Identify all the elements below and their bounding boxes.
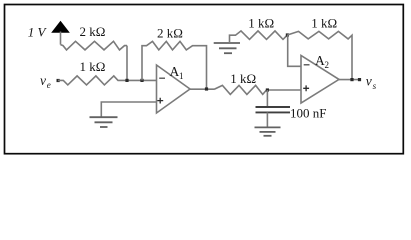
ground G3 (capacitor) (255, 127, 281, 135)
svg-text:1 kΩ: 1 kΩ (311, 15, 337, 30)
svg-text:A: A (170, 64, 180, 79)
wire A2 output (339, 79, 360, 81)
resistor R3 2 kOhm (feedback A1) (142, 41, 207, 89)
svg-text:1 kΩ: 1 kΩ (248, 15, 274, 30)
resistor R6 1 kOhm (top right, feedback A2) (287, 31, 352, 79)
wire A1 output (190, 88, 214, 90)
svg-text:v: v (366, 74, 372, 89)
resistor R1 2 kOhm (source) (61, 41, 128, 50)
label A1 (170, 64, 184, 81)
svg-text:2 kΩ: 2 kΩ (157, 26, 183, 41)
voltage source arrow (1 V) (52, 22, 69, 45)
wire A1 non-inverting input to ground (101, 102, 156, 117)
label 100 nF (290, 106, 326, 121)
junction J6 (A2 output / feedback) (350, 78, 353, 81)
label 2 kOhm R1 (80, 24, 106, 39)
op-amp A2 (301, 56, 339, 104)
node N1 junction dots (125, 79, 143, 82)
svg-text:1 V: 1 V (28, 24, 48, 39)
label 1 V (28, 24, 48, 39)
border frame (5, 5, 404, 154)
svg-text:e: e (47, 80, 51, 90)
svg-text:1: 1 (179, 71, 184, 81)
svg-text:1 kΩ: 1 kΩ (80, 59, 106, 74)
junction J4 (capacitor node) (266, 88, 269, 91)
svg-text:1 kΩ: 1 kΩ (230, 71, 256, 86)
resistor R4 1 kOhm (A1 out to A2 +) (214, 85, 301, 94)
label ve (40, 73, 51, 90)
resistor R2 1 kOhm (input) (58, 76, 157, 85)
svg-text:2: 2 (325, 60, 330, 70)
ground G1 (A1 + input) (90, 117, 118, 127)
label 1 kOhm R6 (311, 15, 337, 30)
junction J3 (A1 output / feedback) (205, 87, 208, 90)
svg-text:v: v (40, 73, 46, 88)
ground G2 (top, R5 left) (214, 43, 240, 53)
svg-text:A: A (315, 53, 325, 68)
svg-text:100 nF: 100 nF (290, 106, 326, 121)
output terminal vs (358, 78, 361, 81)
capacitor C1 100 nF (256, 90, 291, 127)
svg-text:s: s (373, 81, 377, 91)
label 1 kOhm R2 (80, 59, 106, 74)
label A2 (315, 53, 329, 70)
wire R1 right end down to node N1 (126, 46, 128, 81)
resistor R5 1 kOhm (top left, from ground) (230, 31, 288, 43)
label 2 kOhm R3 (157, 26, 183, 41)
junction J5 (top node N3) (286, 33, 289, 36)
label 1 kOhm R4 (230, 71, 256, 86)
label 1 kOhm R5 (248, 15, 274, 30)
input terminal ve (57, 79, 60, 82)
op-amp A1 (157, 65, 191, 113)
label vs (366, 74, 377, 91)
svg-text:2 kΩ: 2 kΩ (80, 24, 106, 39)
wire node N3 to A2 inverting input (288, 35, 301, 66)
